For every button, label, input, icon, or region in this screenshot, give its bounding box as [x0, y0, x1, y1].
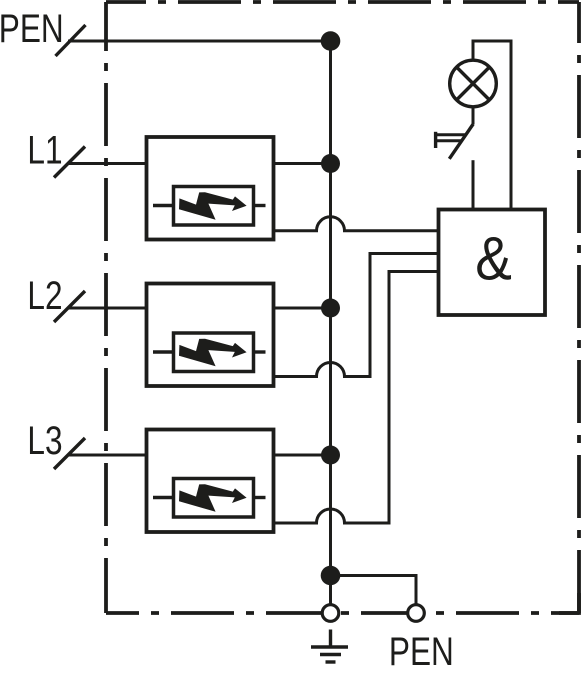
- label L3: [27, 419, 62, 463]
- arrester F1 electrode stub right: [254, 204, 266, 207]
- junction L3: [321, 446, 340, 465]
- arrester F2 spark-gap symbol box: [174, 333, 254, 372]
- lamp cross stroke 1: [457, 67, 490, 100]
- wire PEN input: [68, 40, 331, 43]
- arrester F1 box: [147, 137, 274, 240]
- svg-text:PEN: PEN: [389, 630, 454, 674]
- switch blade (open contact): [449, 124, 473, 159]
- junction L1: [321, 154, 340, 173]
- junction L2: [321, 299, 340, 318]
- wire L3 input: [68, 454, 147, 457]
- slash mark on L1 conductor: [54, 147, 85, 178]
- arrester F1 lightning-arrow: [179, 192, 247, 220]
- arrester F3 lightning-arrow: [179, 484, 247, 512]
- arrester F3 box: [147, 430, 274, 533]
- svg-text:L1: L1: [27, 128, 62, 172]
- slash mark on L2 conductor: [54, 291, 85, 322]
- earth bar 2: [320, 653, 341, 656]
- junction bottom: [321, 566, 341, 586]
- switch actuator bar: [434, 132, 437, 148]
- switch actuator link upper: [436, 133, 466, 136]
- label L2: [27, 273, 62, 317]
- terminal PEN (open circle): [408, 605, 425, 622]
- arrester F3 electrode stub left: [153, 496, 174, 499]
- earth bar 1: [311, 645, 348, 648]
- arrester F2 electrode stub left: [153, 350, 174, 353]
- label PEN (top): [0, 7, 64, 51]
- arrester F1 electrode stub left: [153, 204, 174, 207]
- svg-text:PEN: PEN: [0, 7, 64, 51]
- wire lamp to switch: [472, 107, 475, 125]
- wire PEN/N bus (vertical): [329, 41, 332, 605]
- wire L1 monitor to AND gate (hops bus): [274, 217, 439, 231]
- wire L1 box to bus: [274, 162, 331, 165]
- junction PEN top: [321, 31, 341, 51]
- wire L2 input: [68, 307, 147, 310]
- svg-text:L3: L3: [27, 419, 62, 463]
- wire lamp loop top: [473, 41, 511, 210]
- AND gate U1 box: [439, 210, 546, 316]
- arrester F2 lightning-arrow: [179, 339, 247, 367]
- arrester F2 electrode stub right: [254, 350, 266, 353]
- slash mark on PEN conductor: [56, 25, 86, 56]
- earth stem: [329, 630, 332, 648]
- earth bar 3: [326, 660, 336, 663]
- svg-text:&: &: [475, 225, 512, 293]
- arrester F3 electrode stub right: [254, 496, 266, 499]
- arrester F2 box: [147, 284, 274, 387]
- terminal earth (open circle): [322, 605, 339, 622]
- label PEN (bottom): [389, 630, 454, 674]
- svg-text:L2: L2: [27, 273, 62, 317]
- wire bottom junction to PEN terminal: [331, 576, 417, 605]
- wire L1 input: [68, 162, 147, 165]
- wire L2 box to bus: [274, 307, 331, 310]
- wire switch to AND gate: [472, 160, 475, 209]
- enclosure dash-dot border: [106, 2, 579, 613]
- wire L3 monitor to AND gate (hops bus, riser): [274, 272, 439, 524]
- switch actuator link lower: [436, 139, 462, 142]
- wire L3 box to bus: [274, 454, 331, 457]
- lamp cross stroke 2: [457, 67, 490, 100]
- wire L2 monitor to AND gate (hops bus, riser): [274, 254, 439, 377]
- arrester F3 spark-gap symbol box: [174, 479, 254, 518]
- AND gate label &: [475, 225, 512, 293]
- label L1: [27, 128, 62, 172]
- indicator lamp: [450, 60, 497, 107]
- arrester F1 spark-gap symbol box: [174, 187, 254, 226]
- slash mark on L3 conductor: [54, 438, 85, 469]
